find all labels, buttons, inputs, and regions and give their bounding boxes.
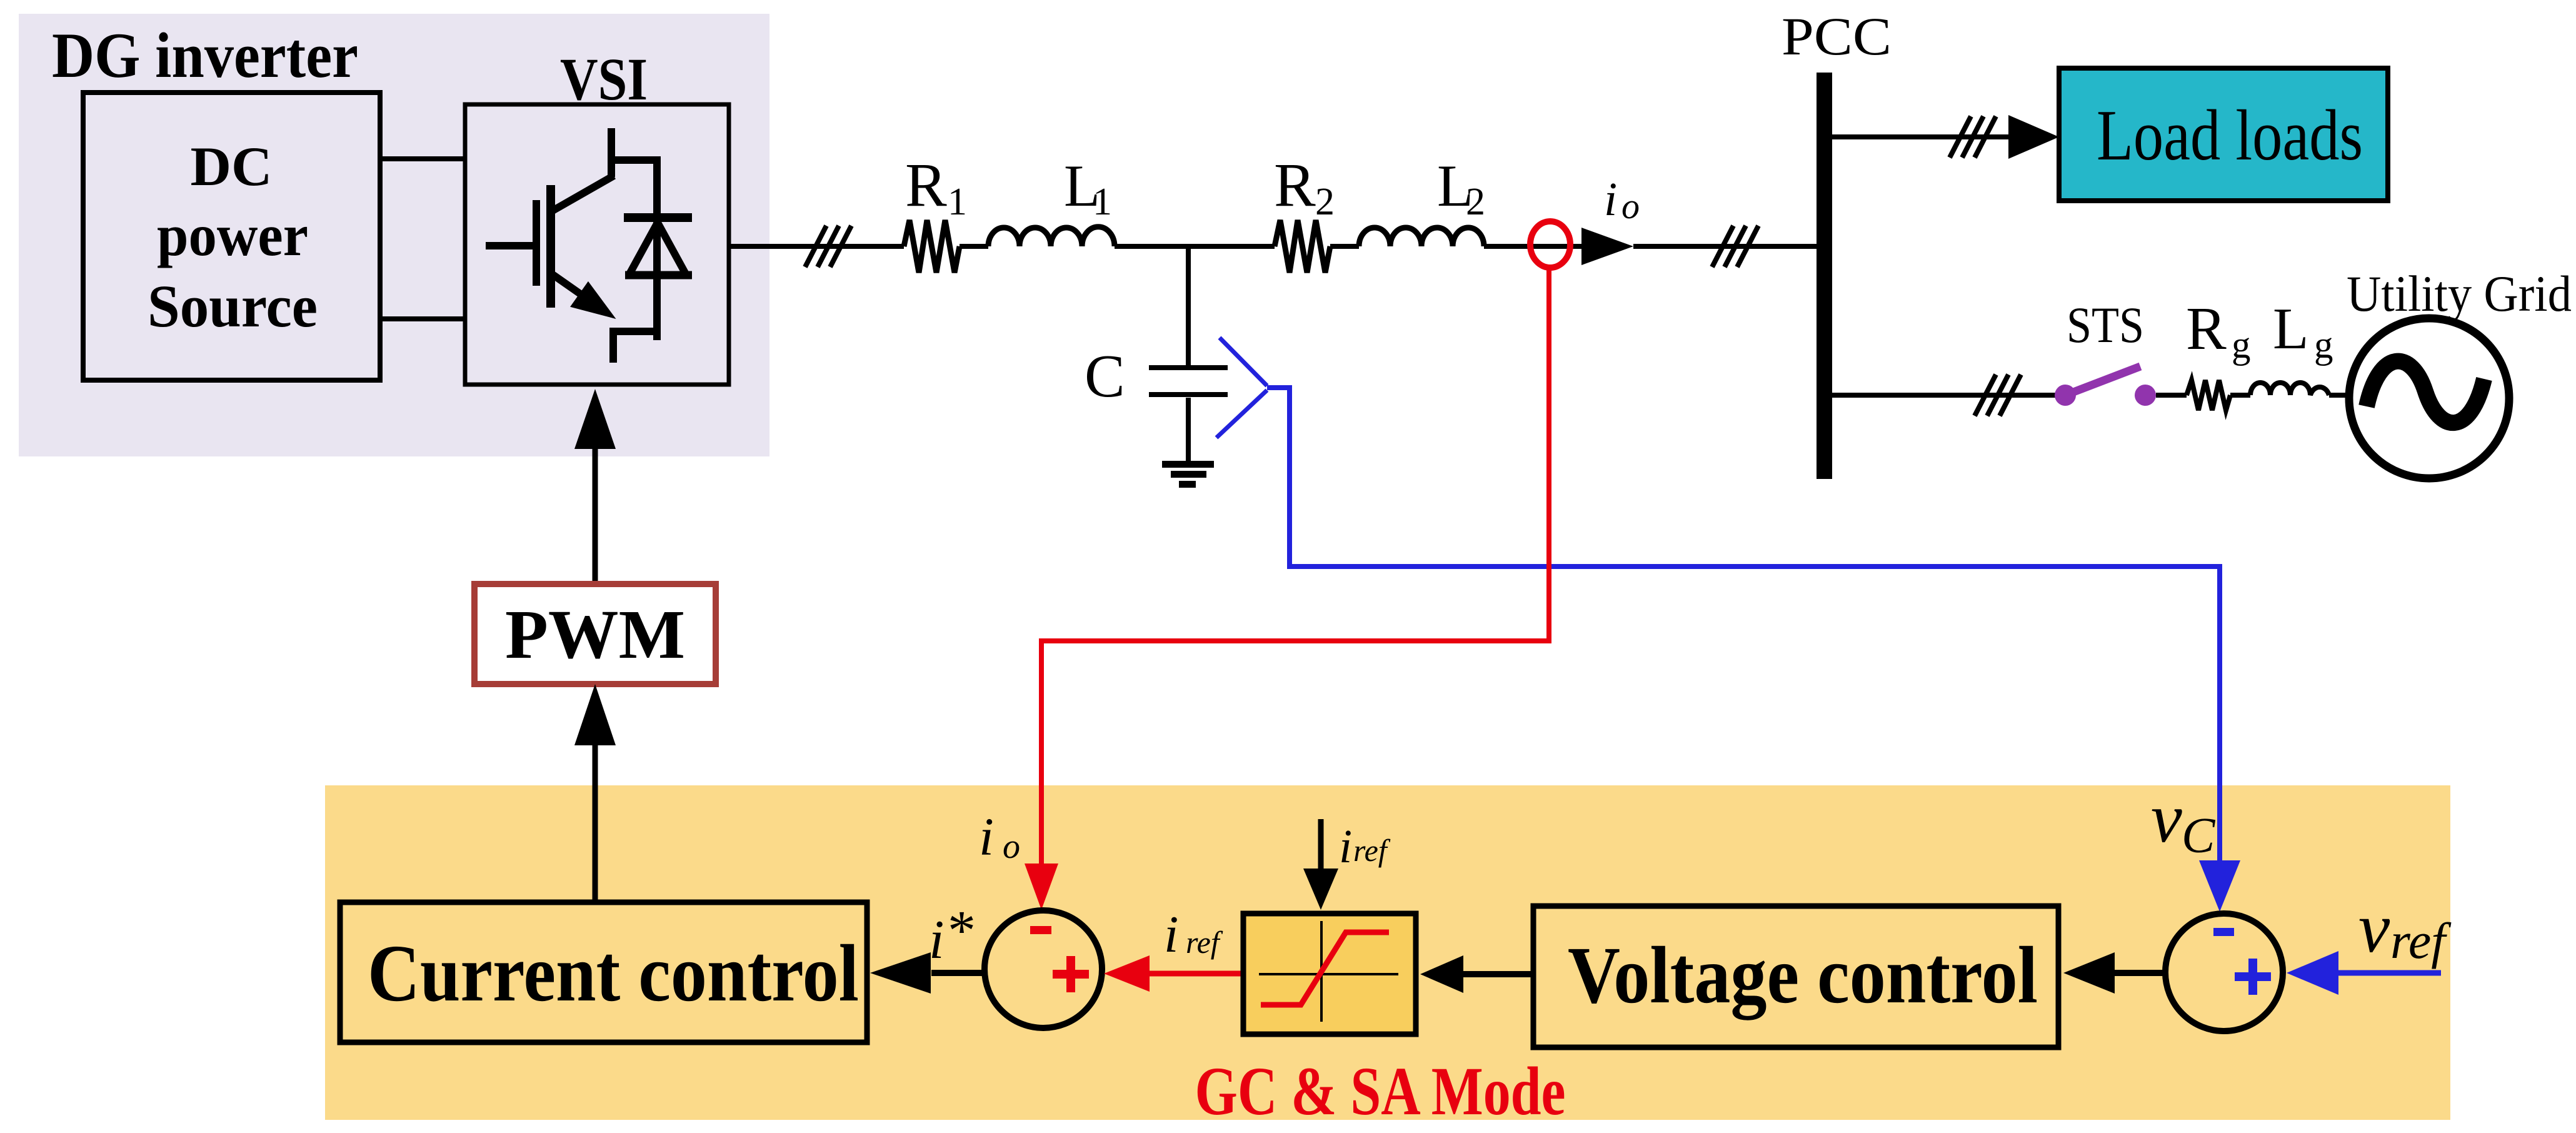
svg-text:PCC: PCC (1782, 6, 1892, 66)
svg-text:power: power (157, 202, 308, 268)
svg-text:i: i (1604, 173, 1617, 226)
svg-text:R: R (2186, 295, 2227, 362)
svg-text:ref: ref (1353, 833, 1391, 868)
svg-text:i: i (979, 807, 994, 867)
svg-text:DG inverter: DG inverter (52, 20, 358, 91)
svg-text:ref: ref (2390, 912, 2452, 969)
svg-text:g: g (2314, 325, 2333, 366)
svg-text:Current control: Current control (368, 929, 859, 1019)
svg-text:2: 2 (1466, 181, 1485, 223)
svg-text:i: i (1339, 820, 1352, 873)
svg-text:C: C (1085, 343, 1125, 410)
svg-text:1: 1 (1093, 181, 1112, 223)
svg-text:ref: ref (1186, 925, 1223, 960)
svg-text:Voltage control: Voltage control (1568, 930, 2038, 1020)
svg-text:i: i (929, 910, 944, 970)
svg-text:DC: DC (191, 136, 273, 198)
svg-text:Utility Grid: Utility Grid (2347, 265, 2572, 322)
svg-text:2: 2 (1315, 181, 1335, 223)
svg-text:PWM: PWM (505, 597, 685, 673)
svg-text:L: L (2273, 296, 2308, 361)
svg-text:R: R (1274, 150, 1316, 219)
svg-text:GC & SA Mode: GC & SA Mode (1195, 1053, 1566, 1129)
svg-text:v: v (2151, 780, 2182, 857)
svg-text:o: o (1003, 827, 1020, 866)
svg-text:g: g (2232, 325, 2251, 366)
svg-text:STS: STS (2067, 296, 2144, 353)
svg-text:i: i (1164, 905, 1178, 964)
svg-text:o: o (1621, 186, 1640, 226)
svg-text:v: v (2358, 889, 2390, 967)
svg-text:Source: Source (148, 273, 318, 340)
svg-text:VSI: VSI (560, 46, 648, 113)
svg-text:C: C (2182, 808, 2216, 864)
svg-text:1: 1 (948, 181, 967, 223)
svg-text:Load loads: Load loads (2097, 96, 2363, 175)
svg-text:R: R (905, 150, 947, 219)
svg-text:*: * (948, 900, 976, 962)
